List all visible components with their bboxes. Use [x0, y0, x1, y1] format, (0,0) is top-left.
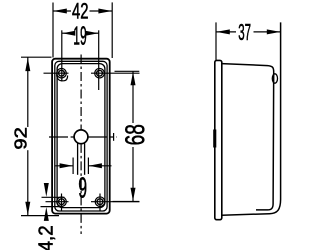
svg-text:19: 19: [73, 23, 86, 51]
svg-text:4,2: 4,2: [35, 225, 57, 250]
svg-text:42: 42: [72, 0, 89, 24]
svg-text:92: 92: [10, 127, 30, 150]
svg-text:9: 9: [78, 172, 87, 204]
svg-text:37: 37: [238, 19, 251, 45]
svg-text:68: 68: [120, 124, 150, 145]
